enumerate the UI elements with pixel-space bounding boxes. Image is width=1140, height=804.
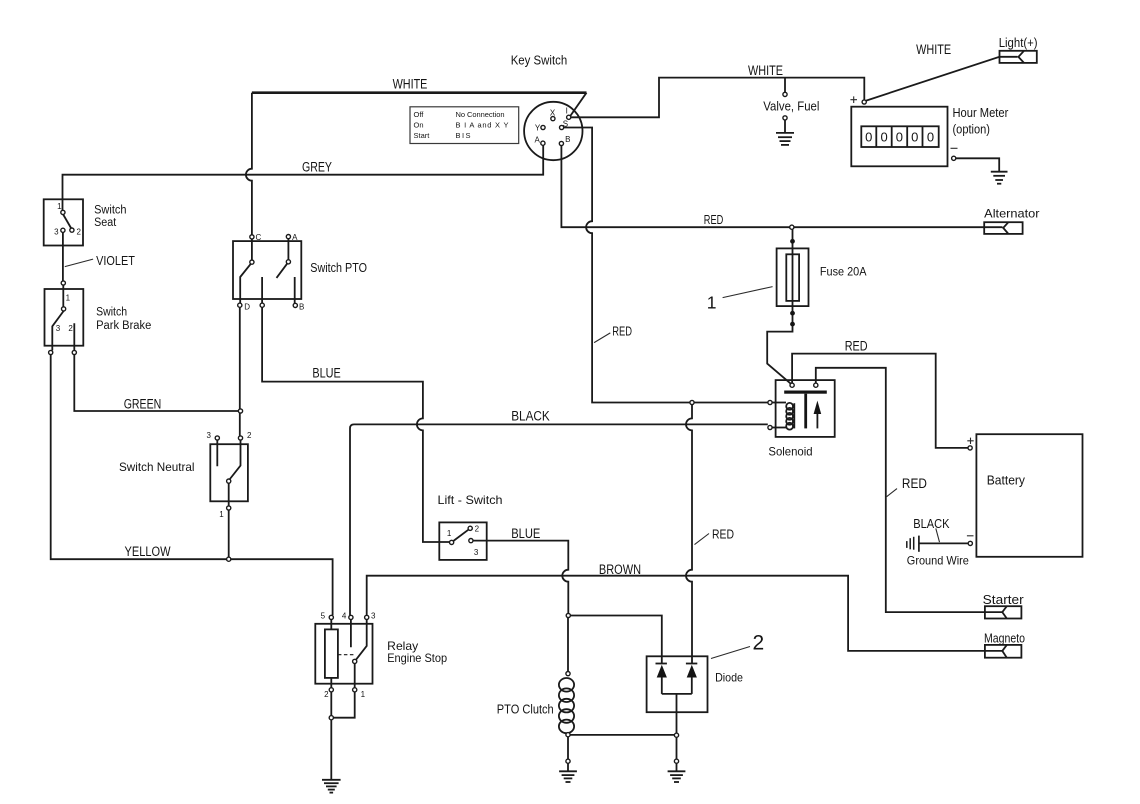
- svg-text:Solenoid: Solenoid: [768, 444, 812, 458]
- switch Neutral pivot: [227, 479, 231, 483]
- key switch terminal A: [541, 141, 545, 145]
- svg-text:PTO Clutch: PTO Clutch: [497, 703, 554, 717]
- svg-text:Engine Stop: Engine Stop: [387, 651, 447, 665]
- battery - terminal: [967, 536, 974, 546]
- svg-text:Switch PTO: Switch PTO: [310, 261, 367, 275]
- svg-text:YELLOW: YELLOW: [125, 544, 171, 559]
- label VIOLET with pointer: [65, 253, 135, 268]
- wire VIOLET seat 3 to park brake 1: [62, 233, 64, 307]
- svg-text:Fuse 20A: Fuse 20A: [820, 265, 867, 279]
- svg-text:C: C: [256, 233, 262, 242]
- relay terminal 2: [329, 688, 333, 692]
- svg-text:Starter: Starter: [983, 593, 1024, 607]
- svg-text:Off: Off: [414, 110, 425, 119]
- solenoid plunger arrow: [814, 401, 822, 429]
- svg-text:D: D: [244, 302, 250, 311]
- svg-text:VIOLET: VIOLET: [96, 253, 135, 268]
- switch PTO box: [233, 241, 301, 299]
- switch Park Brake terminal 3 (below box): [49, 350, 53, 354]
- svg-text:BROWN: BROWN: [599, 562, 641, 577]
- svg-text:(option): (option): [953, 123, 991, 137]
- battery box: [976, 434, 1082, 557]
- svg-text:Seat: Seat: [94, 217, 117, 229]
- svg-text:3: 3: [54, 228, 59, 237]
- diode D2 right element: [686, 664, 697, 694]
- svg-text:1: 1: [57, 202, 62, 211]
- svg-text:I: I: [566, 107, 568, 116]
- switch Seat box: [44, 199, 83, 245]
- ground (hour meter): [991, 172, 1008, 184]
- svg-text:WHITE: WHITE: [748, 63, 783, 78]
- PTO clutch coil L1: [559, 678, 574, 733]
- switch Seat terminal 2: [70, 228, 74, 232]
- relay internal wires: [331, 620, 366, 688]
- lift switch terminal 2: [468, 526, 472, 530]
- connector Magneto: [985, 645, 1022, 658]
- relay terminal 4: [349, 615, 353, 619]
- wire RED key switch B to alternator: [561, 146, 1002, 228]
- relay terminal 3: [365, 615, 369, 619]
- diode D1 left element: [656, 664, 667, 694]
- wire fuse feed down to solenoid: [767, 229, 792, 384]
- svg-text:RED: RED: [845, 339, 868, 354]
- svg-text:BLUE: BLUE: [511, 526, 540, 541]
- svg-text:3: 3: [56, 324, 61, 333]
- switch PTO terminal C: [250, 235, 254, 239]
- hour meter + terminal: [850, 96, 866, 104]
- lift switch terminal 1: [450, 540, 454, 544]
- svg-text:0: 0: [927, 130, 934, 145]
- junction dot below fuse: [790, 311, 795, 316]
- svg-text:Lift - Switch: Lift - Switch: [438, 493, 503, 507]
- solenoid coil: [786, 403, 794, 430]
- key switch U1 circle: [524, 102, 582, 160]
- svg-text:A: A: [292, 233, 298, 242]
- svg-text:RED: RED: [704, 213, 724, 227]
- label Switch Park Brake: [96, 307, 151, 333]
- key switch legend table: [410, 107, 519, 144]
- node yellow junction: [227, 557, 231, 561]
- wire PTO clutch bottom link to diode bottom: [570, 734, 676, 736]
- lift switch lever: [454, 530, 469, 541]
- connector Starter: [985, 606, 1022, 618]
- key switch terminal Y: [541, 125, 545, 129]
- node violet connector: [61, 281, 65, 285]
- svg-text:2: 2: [68, 324, 73, 333]
- switch PTO pivot left: [250, 260, 254, 264]
- wire neutral 1 to yellow: [228, 510, 230, 559]
- node red-fuse junction: [790, 225, 794, 229]
- svg-text:Diode: Diode: [715, 670, 743, 684]
- svg-text:0: 0: [896, 130, 903, 145]
- relay dashed actuator line: [338, 654, 355, 656]
- wire relay 1 and 2 to ground: [331, 692, 354, 780]
- svg-text:Y: Y: [535, 123, 541, 132]
- relay pivot: [353, 659, 357, 663]
- svg-text:Alternator: Alternator: [984, 207, 1039, 221]
- svg-text:Switch: Switch: [96, 307, 127, 319]
- svg-text:GREY: GREY: [302, 160, 332, 175]
- wire WHITE diagonal to Light connector: [866, 57, 1017, 101]
- diode ground terminal: [674, 759, 678, 763]
- wire PTO D down to switch neutral 2: [239, 307, 241, 435]
- wire WHITE from key switch I to Switch PTO C: [246, 93, 587, 235]
- node valve fuel terminal lower: [783, 116, 787, 120]
- label Relay Engine Stop: [387, 639, 447, 665]
- switch Neutral terminal 2: [238, 436, 242, 440]
- wire YELLOW park brake 3 to relay 5: [51, 355, 333, 616]
- svg-text:A: A: [535, 136, 541, 145]
- svg-text:1: 1: [219, 510, 224, 519]
- ground (diode): [668, 771, 686, 782]
- svg-text:Battery: Battery: [987, 474, 1026, 488]
- svg-text:2: 2: [247, 431, 252, 440]
- solenoid top terminal 1: [790, 383, 794, 387]
- svg-text:BLACK: BLACK: [913, 517, 950, 531]
- switch Neutral box: [210, 444, 248, 501]
- svg-text:X: X: [550, 108, 556, 117]
- switch PTO levers and stubs: [240, 239, 295, 303]
- ground (valve fuel): [776, 133, 794, 145]
- svg-text:Valve, Fuel: Valve, Fuel: [763, 99, 819, 113]
- svg-text:BLUE: BLUE: [312, 365, 340, 380]
- switch Neutral lever and stub: [217, 440, 240, 506]
- node junction brown/pto clutch: [566, 613, 570, 617]
- solenoid left terminal lower: [768, 425, 786, 429]
- label RED (middle) with pointer: [594, 324, 632, 342]
- svg-text:0: 0: [880, 130, 887, 145]
- svg-text:WHITE: WHITE: [916, 42, 951, 57]
- svg-text:1: 1: [361, 690, 366, 699]
- wire solenoid output to Starter: [816, 368, 1003, 612]
- svg-text:RED: RED: [902, 476, 927, 491]
- wire GREEN park brake 2 to switch neutral 2: [74, 355, 240, 411]
- label RED (diode wire) with pointer: [695, 527, 735, 545]
- battery + terminal: [967, 438, 973, 450]
- svg-text:2: 2: [76, 228, 81, 237]
- svg-text:GREEN: GREEN: [124, 397, 162, 412]
- node PTO clutch bottom junction: [566, 733, 570, 737]
- switch Seat lever 1-2: [63, 214, 71, 229]
- svg-text:Magneto: Magneto: [984, 632, 1025, 646]
- svg-text:Park Brake: Park Brake: [96, 320, 151, 332]
- svg-text:3: 3: [206, 431, 211, 440]
- connector Light(+): [1000, 51, 1037, 63]
- wire PTO clutch to ground: [567, 737, 569, 771]
- PTO clutch top terminal: [566, 672, 570, 676]
- key switch terminal S: [560, 125, 564, 129]
- wire PTO clutch feed: [567, 618, 569, 672]
- wire GREY from key switch A to Switch Seat 1: [63, 145, 544, 210]
- svg-text:0: 0: [865, 130, 872, 145]
- wire lift switch 3 to pto clutch junction: [473, 541, 568, 614]
- wire BLACK to solenoid coil 2 and relay 4: [350, 424, 768, 615]
- wire BLUE pto middle to lift switch 1: [262, 307, 449, 542]
- svg-text:B I S: B I S: [456, 131, 471, 140]
- svg-text:1: 1: [66, 293, 71, 302]
- ground (relay): [322, 780, 341, 793]
- key switch terminal I: [567, 115, 571, 119]
- svg-text:3: 3: [474, 548, 479, 557]
- switch Seat terminal 1: [61, 210, 65, 214]
- switch PTO pivot right: [286, 260, 290, 264]
- relay box: [315, 624, 372, 684]
- solenoid top terminal 2: [814, 383, 818, 387]
- lift switch terminal 3: [469, 539, 473, 543]
- relay terminal 1: [353, 688, 357, 692]
- key switch terminal B: [559, 141, 563, 145]
- svg-text:B: B: [299, 303, 304, 312]
- svg-text:2: 2: [753, 632, 765, 655]
- svg-text:1: 1: [447, 529, 452, 538]
- switch PTO terminal middle: [260, 303, 264, 307]
- switch Park Brake lever and stubs: [52, 311, 74, 350]
- svg-text:4: 4: [342, 612, 347, 621]
- wire BROWN relay 3 to magneto: [367, 576, 1003, 651]
- wire tap Valve Fuel: [784, 78, 786, 133]
- label BLACK (ground wire) with pointer: [913, 517, 950, 542]
- switch Park Brake terminal 1: [62, 307, 66, 311]
- switch PTO terminal D: [238, 303, 242, 307]
- solenoid left terminal upper: [768, 400, 786, 404]
- svg-text:On: On: [414, 120, 424, 129]
- svg-text:Key Switch: Key Switch: [511, 52, 568, 67]
- ground wire symbol (battery): [907, 536, 968, 552]
- node relay ground junction: [329, 716, 333, 720]
- node diode bottom junction: [674, 733, 678, 737]
- solenoid box: [776, 380, 835, 437]
- svg-text:3: 3: [371, 612, 376, 621]
- svg-text:Ground Wire: Ground Wire: [907, 553, 969, 567]
- svg-text:2: 2: [324, 690, 329, 699]
- node green junction: [238, 409, 242, 413]
- svg-text:No Connection: No Connection: [456, 110, 505, 119]
- node valve fuel terminal upper: [783, 92, 787, 96]
- svg-text:Hour Meter: Hour Meter: [953, 106, 1009, 120]
- svg-text:0: 0: [911, 130, 918, 145]
- switch Neutral terminal 1: [227, 506, 231, 510]
- svg-text:Switch: Switch: [94, 205, 126, 217]
- connector Alternator: [984, 222, 1022, 234]
- svg-text:Switch Neutral: Switch Neutral: [119, 460, 195, 474]
- wire RED key switch S to solenoid coil 1: [564, 128, 768, 403]
- fuse F1 20A: [777, 248, 809, 306]
- ground (PTO clutch): [559, 771, 577, 782]
- wire junction down to diode (RED): [686, 405, 692, 664]
- wire WHITE from key switch I to hour meter: [571, 78, 864, 118]
- svg-text:1: 1: [707, 292, 717, 312]
- svg-text:RED: RED: [612, 324, 632, 338]
- switch Neutral terminal 3: [215, 436, 219, 440]
- svg-text:Start: Start: [414, 131, 431, 140]
- label Switch Seat: [94, 205, 126, 229]
- wire RED solenoid to battery +: [792, 354, 968, 448]
- relay coil rectangle: [325, 629, 338, 678]
- svg-text:RED: RED: [712, 527, 734, 542]
- svg-text:BLACK: BLACK: [511, 408, 550, 423]
- diode bottom U link: [662, 694, 692, 733]
- svg-text:Light(+): Light(+): [999, 36, 1038, 50]
- solenoid T-bar contact: [784, 391, 827, 429]
- switch PTO terminal A: [286, 235, 290, 239]
- lift switch box: [439, 522, 486, 560]
- switch Park Brake terminal 2 (below box): [72, 350, 76, 354]
- switch Park Brake box: [45, 289, 84, 346]
- label RED (starter wire) with pointer: [887, 476, 928, 497]
- junction dot above fuse: [790, 239, 795, 244]
- svg-text:B: B: [565, 135, 570, 144]
- callout 1 with pointer: [707, 287, 773, 313]
- hour meter box: [851, 107, 947, 167]
- switch Seat terminal 3: [61, 228, 65, 232]
- svg-text:WHITE: WHITE: [393, 76, 428, 91]
- key switch terminal X: [551, 117, 555, 121]
- node junction S-wire/diode vertical: [690, 400, 694, 404]
- PTO clutch ground terminal: [566, 759, 570, 763]
- relay terminal 5: [329, 615, 333, 619]
- wire junction to diode left: [571, 616, 662, 664]
- switch PTO terminal B: [293, 303, 297, 307]
- svg-text:5: 5: [321, 612, 326, 621]
- junction dot below fuse 2: [790, 322, 795, 327]
- svg-text:2: 2: [475, 525, 480, 534]
- svg-text:B I A and X Y: B I A and X Y: [456, 120, 509, 129]
- hour meter - terminal and ground wire: [951, 148, 1000, 171]
- callout 2 with pointer: [711, 632, 764, 659]
- wire diode to ground: [676, 737, 678, 771]
- diode box: [647, 656, 708, 712]
